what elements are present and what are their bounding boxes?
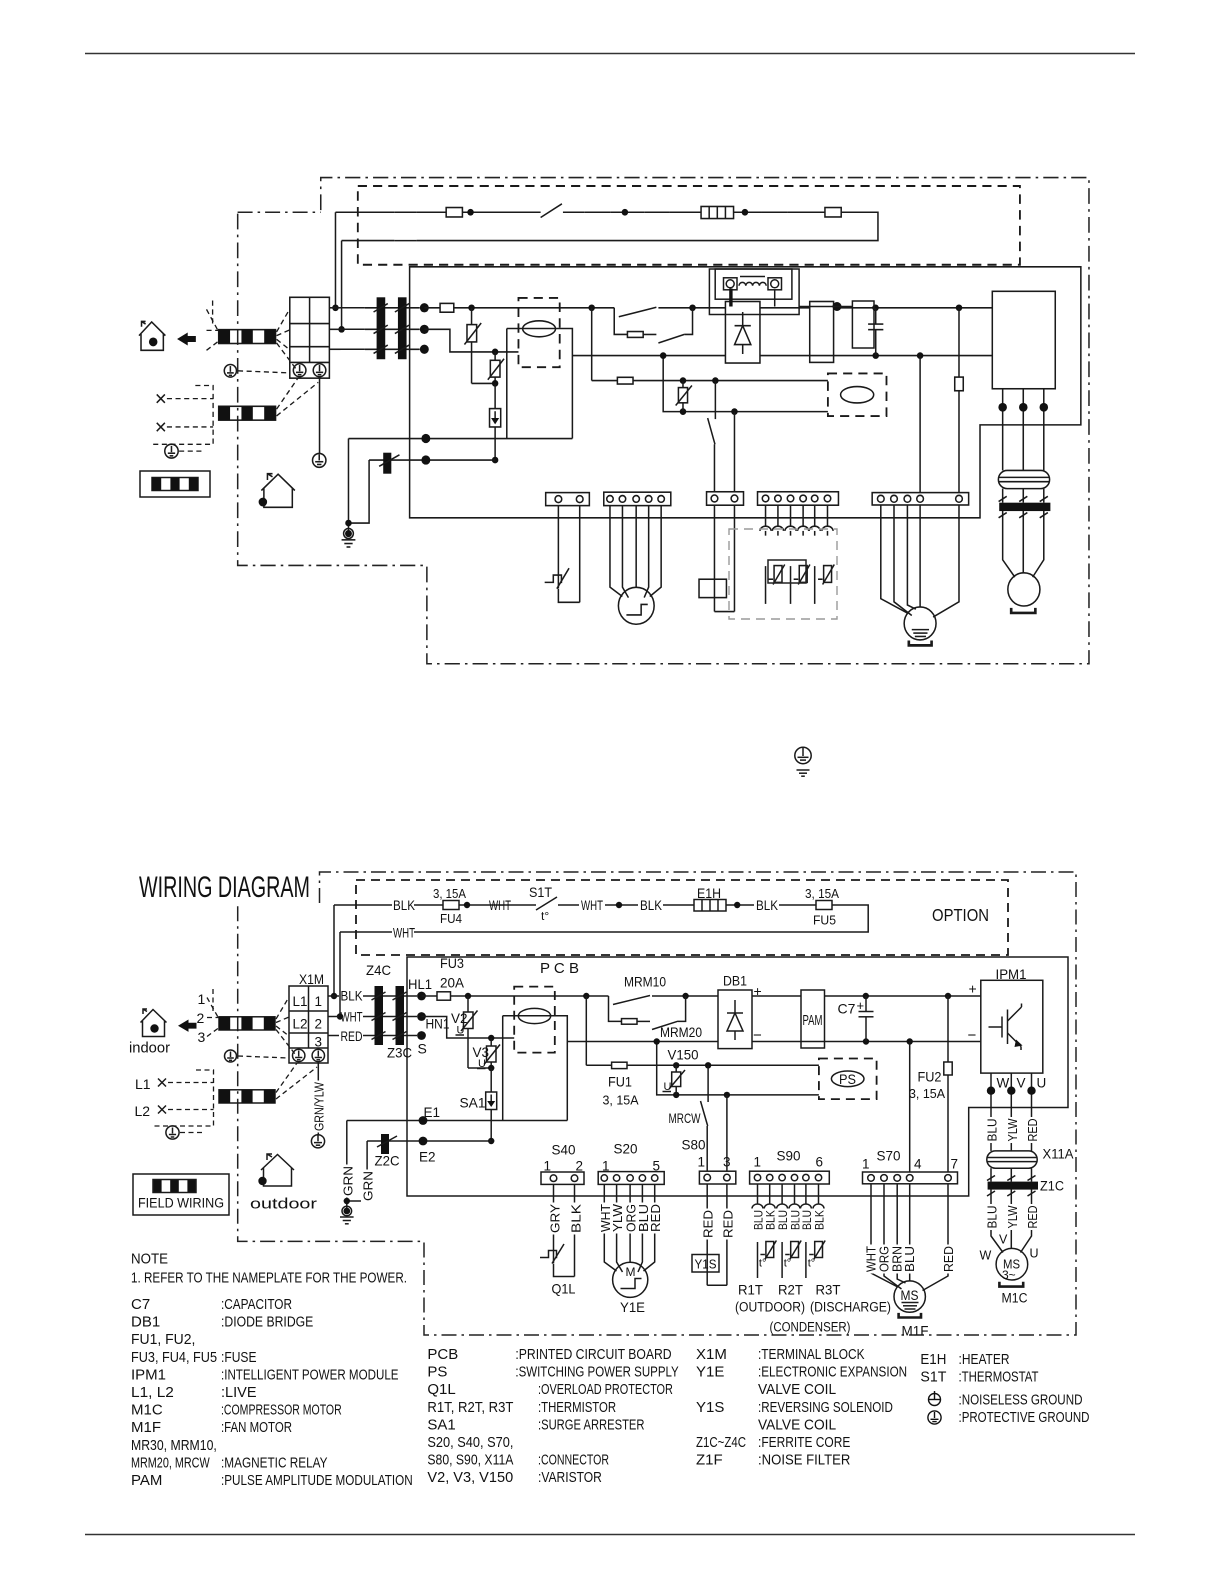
svg-text:SA1: SA1	[460, 1095, 486, 1111]
svg-text:indoor: indoor	[129, 1041, 170, 1057]
svg-text:1: 1	[698, 1155, 706, 1170]
svg-text:MS: MS	[901, 1288, 919, 1303]
svg-text:Y1S: Y1S	[695, 1257, 717, 1272]
svg-text:20A: 20A	[440, 976, 464, 991]
svg-text:VALVE COIL: VALVE COIL	[758, 1416, 836, 1433]
svg-text:IPM1: IPM1	[996, 966, 1027, 982]
svg-text:MRM10: MRM10	[624, 974, 666, 990]
svg-text::THERMOSTAT: :THERMOSTAT	[959, 1369, 1039, 1386]
svg-text::REVERSING SOLENOID: :REVERSING SOLENOID	[758, 1399, 893, 1416]
svg-text:V: V	[999, 1233, 1008, 1247]
svg-text::INTELLIGENT POWER MODULE: :INTELLIGENT POWER MODULE	[221, 1366, 399, 1383]
svg-text::NOISELESS GROUND: :NOISELESS GROUND	[959, 1392, 1083, 1409]
svg-text:Z3C: Z3C	[387, 1045, 412, 1061]
svg-text:DB1: DB1	[131, 1314, 160, 1331]
svg-text:V: V	[1017, 1076, 1026, 1091]
svg-text:RED: RED	[942, 1246, 956, 1272]
svg-text::NOISE FILTER: :NOISE FILTER	[758, 1452, 850, 1469]
svg-text:3: 3	[315, 1035, 323, 1050]
svg-text::PULSE AMPLITUDE MODULATION: :PULSE AMPLITUDE MODULATION	[221, 1472, 413, 1489]
svg-text:FU3, FU4, FU5: FU3, FU4, FU5	[131, 1349, 217, 1366]
svg-text:3, 15A: 3, 15A	[433, 886, 466, 901]
svg-text:C7: C7	[838, 1001, 856, 1017]
svg-text:6: 6	[816, 1155, 824, 1170]
svg-text:L1, L2: L1, L2	[131, 1384, 174, 1401]
svg-text:WHT: WHT	[581, 898, 603, 913]
svg-text:MR30, MRM10,: MR30, MRM10,	[131, 1437, 217, 1454]
svg-text:S80: S80	[682, 1137, 706, 1153]
svg-text:3, 15A: 3, 15A	[603, 1093, 639, 1108]
svg-text:BLK: BLK	[341, 989, 363, 1004]
svg-text:PAM: PAM	[803, 1013, 823, 1029]
svg-text:Z1F: Z1F	[696, 1452, 723, 1469]
svg-text:FU1: FU1	[608, 1074, 632, 1090]
svg-text:S40: S40	[552, 1142, 576, 1158]
svg-text:WHT: WHT	[489, 898, 511, 913]
svg-text:BLK: BLK	[570, 1203, 584, 1233]
svg-text:GRY: GRY	[549, 1203, 563, 1233]
svg-text:ORG: ORG	[878, 1246, 892, 1272]
svg-text:RED: RED	[1026, 1119, 1040, 1142]
svg-text:E2: E2	[419, 1150, 436, 1165]
svg-text:L2: L2	[293, 1017, 308, 1032]
svg-text:WHT: WHT	[393, 926, 415, 941]
svg-text:S20, S40, S70,: S20, S40, S70,	[427, 1434, 513, 1451]
svg-text:PS: PS	[427, 1364, 447, 1381]
svg-text:OPTION: OPTION	[932, 905, 989, 925]
svg-text:1: 1	[862, 1157, 870, 1172]
svg-text:BLK: BLK	[393, 898, 415, 913]
svg-text:PAM: PAM	[131, 1472, 162, 1489]
svg-text:MRM20, MRCW: MRM20, MRCW	[131, 1454, 210, 1471]
svg-text:R1T, R2T, R3T: R1T, R2T, R3T	[427, 1399, 513, 1416]
svg-text:U: U	[1030, 1247, 1039, 1261]
svg-text:FU2: FU2	[918, 1069, 942, 1085]
svg-text:HN1: HN1	[426, 1017, 450, 1032]
svg-text:HL1: HL1	[408, 977, 432, 992]
svg-text:C7: C7	[131, 1296, 150, 1313]
svg-text::PROTECTIVE GROUND: :PROTECTIVE GROUND	[959, 1409, 1090, 1426]
svg-text:X1M: X1M	[696, 1346, 727, 1363]
svg-text:2: 2	[197, 1010, 205, 1026]
svg-text::THERMISTOR: :THERMISTOR	[538, 1399, 616, 1416]
svg-text:R3T: R3T	[816, 1283, 841, 1298]
svg-text::SURGE ARRESTER: :SURGE ARRESTER	[538, 1416, 645, 1433]
svg-text:FU4: FU4	[440, 911, 462, 926]
svg-text::CAPACITOR: :CAPACITOR	[221, 1296, 292, 1313]
svg-text:Y1S: Y1S	[696, 1399, 724, 1416]
svg-text:Y1E: Y1E	[620, 1299, 645, 1315]
svg-text:GRN: GRN	[342, 1166, 356, 1196]
svg-text:RED: RED	[721, 1210, 735, 1238]
svg-text:+: +	[969, 981, 977, 997]
svg-text:1. REFER TO THE NAMEPLATE FOR: 1. REFER TO THE NAMEPLATE FOR THE POWER.	[131, 1270, 407, 1287]
svg-text:t°: t°	[759, 1258, 766, 1270]
svg-text::SWITCHING POWER SUPPLY: :SWITCHING POWER SUPPLY	[515, 1364, 678, 1381]
svg-text:BLK: BLK	[815, 1210, 827, 1230]
svg-text:YLW: YLW	[1006, 1118, 1020, 1141]
svg-text:S1T: S1T	[529, 885, 552, 900]
svg-text:t°: t°	[784, 1258, 791, 1270]
svg-text:GRN/YLW: GRN/YLW	[313, 1082, 327, 1131]
svg-text:RED: RED	[341, 1029, 363, 1044]
svg-text:R1T: R1T	[738, 1283, 763, 1298]
svg-text:M1C: M1C	[131, 1402, 163, 1419]
svg-text:S: S	[418, 1041, 427, 1057]
svg-text:Z4C: Z4C	[366, 962, 391, 978]
svg-text:DB1: DB1	[723, 973, 747, 989]
svg-text:−: −	[753, 1027, 762, 1044]
svg-text:MRM20: MRM20	[660, 1024, 702, 1040]
svg-text::TERMINAL BLOCK: :TERMINAL BLOCK	[758, 1346, 865, 1363]
svg-text:P C B: P C B	[540, 960, 579, 977]
svg-text:E1: E1	[424, 1105, 441, 1120]
svg-text:YLW: YLW	[611, 1204, 625, 1232]
svg-text:7: 7	[951, 1157, 959, 1172]
svg-text:3, 15A: 3, 15A	[909, 1086, 945, 1101]
svg-text:FIELD WIRING: FIELD WIRING	[138, 1196, 224, 1211]
svg-text::FUSE: :FUSE	[221, 1349, 257, 1366]
svg-text::VARISTOR: :VARISTOR	[538, 1469, 602, 1486]
svg-text:PS: PS	[839, 1071, 856, 1087]
svg-text:M1F: M1F	[902, 1323, 929, 1339]
svg-text:S1T: S1T	[920, 1369, 946, 1386]
svg-text:(OUTDOOR): (OUTDOOR)	[735, 1300, 805, 1315]
svg-text::MAGNETIC RELAY: :MAGNETIC RELAY	[221, 1454, 328, 1471]
svg-text:FU5: FU5	[813, 913, 836, 928]
svg-text:(DISCHARGE): (DISCHARGE)	[810, 1300, 891, 1315]
svg-text:2: 2	[315, 1017, 323, 1032]
svg-text:W: W	[980, 1249, 992, 1263]
svg-text::ELECTRONIC EXPANSION: :ELECTRONIC EXPANSION	[758, 1364, 907, 1381]
svg-text:−: −	[968, 1027, 977, 1044]
svg-text:Z1C~Z4C: Z1C~Z4C	[696, 1434, 746, 1451]
svg-text:t°: t°	[541, 909, 549, 923]
svg-text:MRCW: MRCW	[669, 1110, 702, 1126]
svg-text:SA1: SA1	[427, 1416, 455, 1433]
svg-text:VALVE COIL: VALVE COIL	[758, 1381, 836, 1398]
svg-text:1: 1	[315, 994, 323, 1009]
svg-text:Z1C: Z1C	[1040, 1179, 1064, 1194]
svg-text:t°: t°	[808, 1258, 815, 1270]
svg-text:M1F: M1F	[131, 1419, 161, 1436]
svg-text:V150: V150	[668, 1047, 699, 1063]
svg-text::DIODE BRIDGE: :DIODE BRIDGE	[221, 1314, 313, 1331]
svg-text:WHT: WHT	[341, 1010, 363, 1025]
svg-text:M: M	[626, 1265, 636, 1279]
svg-text::COMPRESSOR MOTOR: :COMPRESSOR MOTOR	[221, 1402, 342, 1419]
svg-text:M1C: M1C	[1002, 1291, 1028, 1306]
svg-text:X1M: X1M	[299, 971, 324, 987]
svg-text:1: 1	[198, 991, 206, 1007]
svg-text:RED: RED	[702, 1210, 716, 1238]
svg-text:NOTE: NOTE	[131, 1251, 168, 1268]
svg-text:FU3: FU3	[440, 956, 464, 971]
svg-text:1: 1	[602, 1159, 610, 1174]
svg-text:L2: L2	[135, 1103, 151, 1119]
svg-text:3: 3	[198, 1029, 206, 1045]
svg-text:WIRING DIAGRAM: WIRING DIAGRAM	[139, 871, 310, 904]
svg-text:U: U	[1037, 1076, 1047, 1091]
svg-text:Q1L: Q1L	[552, 1281, 576, 1297]
svg-text::CONNECTOR: :CONNECTOR	[538, 1452, 609, 1469]
svg-text:Q1L: Q1L	[427, 1381, 455, 1398]
svg-text:2: 2	[576, 1159, 584, 1174]
svg-text::FERRITE CORE: :FERRITE CORE	[758, 1434, 850, 1451]
svg-text:(CONDENSER): (CONDENSER)	[770, 1320, 851, 1335]
svg-text:IPM1: IPM1	[131, 1366, 166, 1383]
svg-text::HEATER: :HEATER	[959, 1351, 1010, 1368]
svg-text:PCB: PCB	[427, 1346, 458, 1363]
svg-text:GRN: GRN	[362, 1171, 376, 1201]
svg-text:S90: S90	[777, 1148, 801, 1164]
svg-text:RED: RED	[1026, 1206, 1040, 1229]
svg-text:3~: 3~	[1002, 1268, 1016, 1282]
svg-text:+: +	[857, 998, 865, 1013]
svg-text::LIVE: :LIVE	[221, 1384, 257, 1401]
svg-text:W: W	[997, 1076, 1010, 1091]
svg-text:3, 15A: 3, 15A	[805, 886, 839, 901]
svg-text:WHT: WHT	[865, 1246, 879, 1272]
svg-text:E1H: E1H	[920, 1351, 946, 1368]
svg-text:BLU: BLU	[903, 1246, 917, 1272]
svg-text:1: 1	[754, 1155, 762, 1170]
svg-text:BLK: BLK	[756, 898, 778, 913]
svg-text:FU1, FU2,: FU1, FU2,	[131, 1331, 195, 1348]
svg-text:R2T: R2T	[778, 1283, 803, 1298]
svg-text:4: 4	[914, 1157, 922, 1172]
svg-text:S20: S20	[614, 1141, 638, 1157]
svg-text::PRINTED CIRCUIT BOARD: :PRINTED CIRCUIT BOARD	[515, 1346, 671, 1363]
svg-text:S80, S90, X11A: S80, S90, X11A	[427, 1452, 513, 1469]
svg-text:L1: L1	[135, 1076, 151, 1092]
svg-text:3: 3	[723, 1155, 731, 1170]
svg-text:BLU: BLU	[986, 1119, 1000, 1142]
svg-text:BLU: BLU	[986, 1206, 1000, 1229]
svg-text:BLK: BLK	[640, 898, 662, 913]
svg-text:E1H: E1H	[697, 886, 721, 901]
svg-text:L1: L1	[293, 994, 308, 1009]
svg-text:+: +	[754, 983, 762, 999]
svg-text:YLW: YLW	[1006, 1205, 1020, 1228]
svg-text::FAN MOTOR: :FAN MOTOR	[221, 1419, 292, 1436]
svg-text:S70: S70	[877, 1148, 901, 1164]
svg-text:1: 1	[544, 1159, 552, 1174]
svg-text:RED: RED	[649, 1204, 663, 1232]
svg-text:Z2C: Z2C	[375, 1153, 400, 1169]
svg-text::OVERLOAD PROTECTOR: :OVERLOAD PROTECTOR	[538, 1381, 673, 1398]
svg-text:outdoor: outdoor	[250, 1197, 317, 1213]
svg-text:Y1E: Y1E	[696, 1364, 724, 1381]
svg-text:X11A: X11A	[1043, 1147, 1074, 1162]
svg-text:5: 5	[653, 1159, 661, 1174]
svg-text:V2, V3, V150: V2, V3, V150	[427, 1469, 513, 1486]
